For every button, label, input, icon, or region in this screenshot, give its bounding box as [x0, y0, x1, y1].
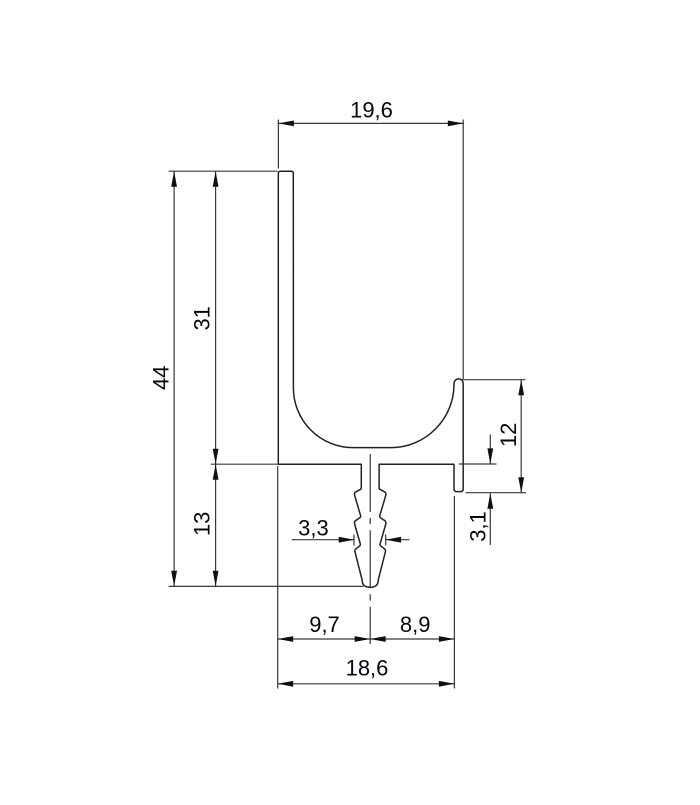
svg-text:12: 12: [496, 423, 521, 447]
svg-text:8,9: 8,9: [400, 612, 431, 637]
svg-text:3,1: 3,1: [466, 511, 491, 542]
svg-text:3,3: 3,3: [298, 516, 329, 541]
svg-text:13: 13: [189, 512, 214, 536]
svg-text:18,6: 18,6: [346, 656, 389, 681]
svg-text:44: 44: [148, 366, 173, 390]
svg-text:31: 31: [190, 306, 215, 330]
svg-text:9,7: 9,7: [309, 612, 340, 637]
svg-text:19,6: 19,6: [350, 98, 393, 123]
